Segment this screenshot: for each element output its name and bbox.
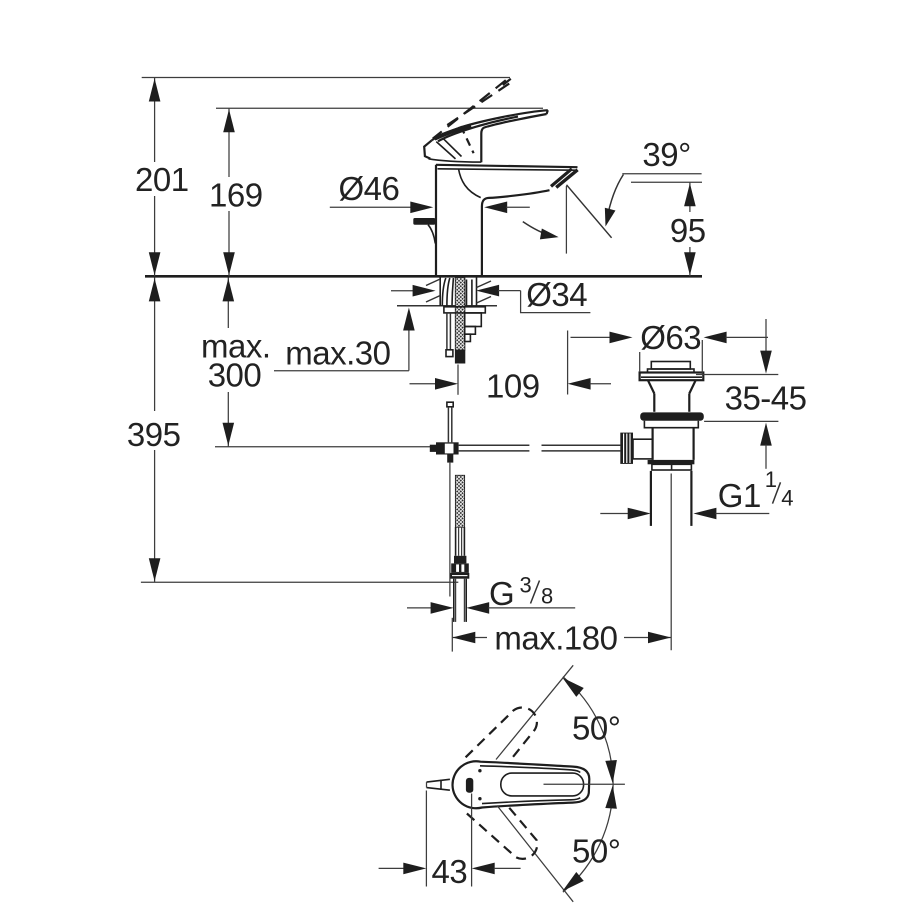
dimension 35-45 top reference line [696,374,778,376]
dimension max.180 line [452,637,487,639]
svg-text:300: 300 [208,357,262,394]
dimension 35-45 upper arrow [765,319,767,353]
counter hatch diagonal left 2 [426,296,440,303]
svg-text:109: 109 [486,367,540,404]
counter underside line [397,305,497,307]
counter hatch diagonal right 1 [477,281,492,288]
hose end cap [446,350,453,357]
dimension diameter34 line left [391,290,414,292]
fixing stud line 2 [471,280,473,306]
open handle dashed tip [503,79,511,85]
faucet body top edge [436,165,578,167]
handle knuckle diagonal 1 [436,142,455,159]
svg-text:Ø63: Ø63 [640,319,701,356]
dimension max.30 leader line [274,370,409,372]
svg-text:G1: G1 [718,477,761,514]
dimension 95 line [684,182,696,276]
dimension 35-45 bottom reference line [704,420,778,422]
faucet body column left edge [435,165,437,275]
extension line 395 bottom [141,581,458,583]
dimension 43 extension left [425,791,427,887]
pop-up rod vertical line 1 [447,407,449,443]
drain body upper wall left [653,394,655,412]
counter hatch diagonal left 1 [426,279,440,286]
svg-text:50°: 50° [572,710,620,747]
threaded shank hatched [455,278,465,351]
extension line closed handle tip (169 ref) [216,107,543,109]
paddle bottom inner line [482,798,580,804]
dimension diameter34 line right [476,285,499,297]
rod fitting head [430,445,436,452]
arc arrowhead above centerline [605,760,618,784]
curved swivel arrow under spout [523,222,552,236]
pop-up rod vertical line 2 [451,407,453,443]
rod fitting pin [447,455,453,463]
dimension max.30 vertical with arrow [408,329,410,371]
svg-text:201: 201 [135,161,189,198]
handle knuckle diagonal 2 [444,139,462,157]
dimension diameter63 line [571,336,611,338]
vertical line below aerator [565,186,567,254]
hose tube inner line 1 [458,527,460,556]
fixing stud line 1 [466,280,468,306]
hose tube wall right [463,527,465,556]
open handle dashed upper (top view) [466,707,537,761]
paddle inner plateau [501,773,584,796]
supply pipe wall left [453,579,455,622]
drain body lower wall left [651,428,653,460]
hose curve 1 in hole [442,278,446,306]
hose below plate line 2 [449,313,451,350]
dimension 35-45 lower arrow [760,423,772,446]
svg-text:395: 395 [127,416,181,453]
side knob bar [413,218,435,225]
drain push cap [651,362,690,370]
handle top view solid paddle [453,761,590,808]
hose curve 3 in hole [452,278,453,306]
open handle dashed line 1 [433,80,506,138]
hose nut bottom flange [450,573,469,579]
drain tailpipe wall right [690,471,692,526]
mounting hole outline left [439,278,441,306]
fixing nut step 3 [465,334,471,341]
handle lever inner line [438,117,518,142]
drain knob stem [633,439,653,459]
mounting hole outline right [476,278,478,306]
hose tube inner line 2 [461,527,463,556]
arc arrowhead lower end [559,872,584,896]
svg-text:Ø46: Ø46 [339,170,400,207]
handle lever tip cap [547,110,548,114]
drain white ring [652,464,692,470]
drain flange [640,373,704,381]
side knob curve [428,225,435,244]
drain centerline [670,474,672,651]
paddle logo mark [466,778,473,793]
hose tube wall left [455,527,457,556]
braided hose hatched [455,475,464,527]
open handle dashed inner edge [461,126,474,153]
horseshoe plate [444,307,485,313]
drain neck left [648,380,654,393]
horizontal rod segment 2 [542,444,621,446]
drain band below seal [644,421,698,428]
dimension max.180 extension left [451,618,453,652]
extension line pop-up rod level [215,446,437,448]
svg-text:1: 1 [765,467,777,492]
svg-text:max.180: max.180 [494,619,617,656]
dimension 109 extension left [457,365,459,395]
hose below plate line 1 [446,313,448,350]
paddle front tab [427,779,450,790]
spout aerator inner bar [551,169,572,187]
drain neck right [689,380,695,393]
dimension diameter34 leader [521,291,591,313]
svg-text:169: 169 [209,177,263,214]
39deg curved arrow [607,175,624,220]
dimension 395 line [149,278,161,583]
paddle top inner line [480,766,580,773]
pop-up rod upper cap [447,402,453,407]
50deg upper construction line [496,665,573,759]
svg-text:35-45: 35-45 [725,380,807,417]
dimension diameter46 line left [330,206,412,208]
svg-text:max.30: max.30 [285,335,390,372]
handle base seam [429,159,482,162]
svg-text:4: 4 [781,485,793,510]
drain knurled knob [620,433,633,464]
hose curve 2 in hole [447,278,450,306]
svg-text:Ø34: Ø34 [526,276,587,313]
dimension 109 arrows [410,383,437,385]
svg-text:39°: 39° [642,136,690,173]
dimension diameter63 extension left [639,352,641,372]
arc arrowhead upper end [559,673,584,697]
threaded shank dark tip [455,350,465,364]
drain rubber seal [640,412,704,420]
dimension 201 line [149,78,161,277]
handle centerline [544,783,625,785]
water stream direction line [567,185,612,238]
handle lever dark band [435,126,472,139]
svg-text:43: 43 [432,853,468,890]
paddle dot upper [478,769,481,772]
handle front beak [424,140,432,158]
50deg lower construction line [497,806,573,902]
counter top line [145,275,702,278]
spout inner transition curve [459,169,481,198]
paddle dot lower [478,797,481,800]
drain bottom dark ring [648,460,695,464]
drain tailpipe wall left [650,471,652,526]
dimension 43 arrows [379,867,405,869]
spout bottom edge and column right edge [482,190,550,275]
hose nut body [451,563,469,573]
dimension max.300 line [223,278,235,447]
hose nut upper band [454,556,466,564]
dimension G3/8 arrows [407,607,432,609]
dimension 109 extension right [567,331,569,395]
svg-text:50°: 50° [572,833,620,870]
svg-text:3: 3 [520,572,532,597]
extension line top of handle (201 ref) [142,77,510,79]
handle lever bottom edge and neck [481,114,546,162]
handle lever top edge [432,110,548,140]
dimension 169 line [223,108,235,276]
50deg arc [563,677,613,892]
faucet body top bevel line [438,169,576,170]
dimension diameter63 extension right [701,340,703,374]
dimension G1 1/4 line [600,513,628,515]
svg-text:95: 95 [670,212,706,249]
rod cross fitting body [436,442,459,454]
drain body lower wall right [692,428,694,460]
arc arrowhead below centerline [605,785,618,809]
spout aerator outer bar [556,170,577,188]
39deg horizontal reference line [622,173,701,175]
open handle dashed line 2 [443,84,509,128]
pop-up rod lower thin line [449,463,451,597]
open handle dashed lower (top view) [467,803,537,859]
dimension diameter46 line right [484,202,507,214]
svg-text:8: 8 [541,584,553,609]
extension line 95 top [631,181,702,183]
drain body upper wall right [688,394,690,412]
horizontal rod segment 1 [459,444,530,446]
fixing nut step 2 [465,327,476,335]
counter hatch diagonal right 2 [477,297,492,304]
dimension 43 extension right [471,794,473,887]
svg-text:G: G [489,575,514,612]
fixing nut step 1 [465,313,482,327]
supply pipe wall right [465,579,467,622]
